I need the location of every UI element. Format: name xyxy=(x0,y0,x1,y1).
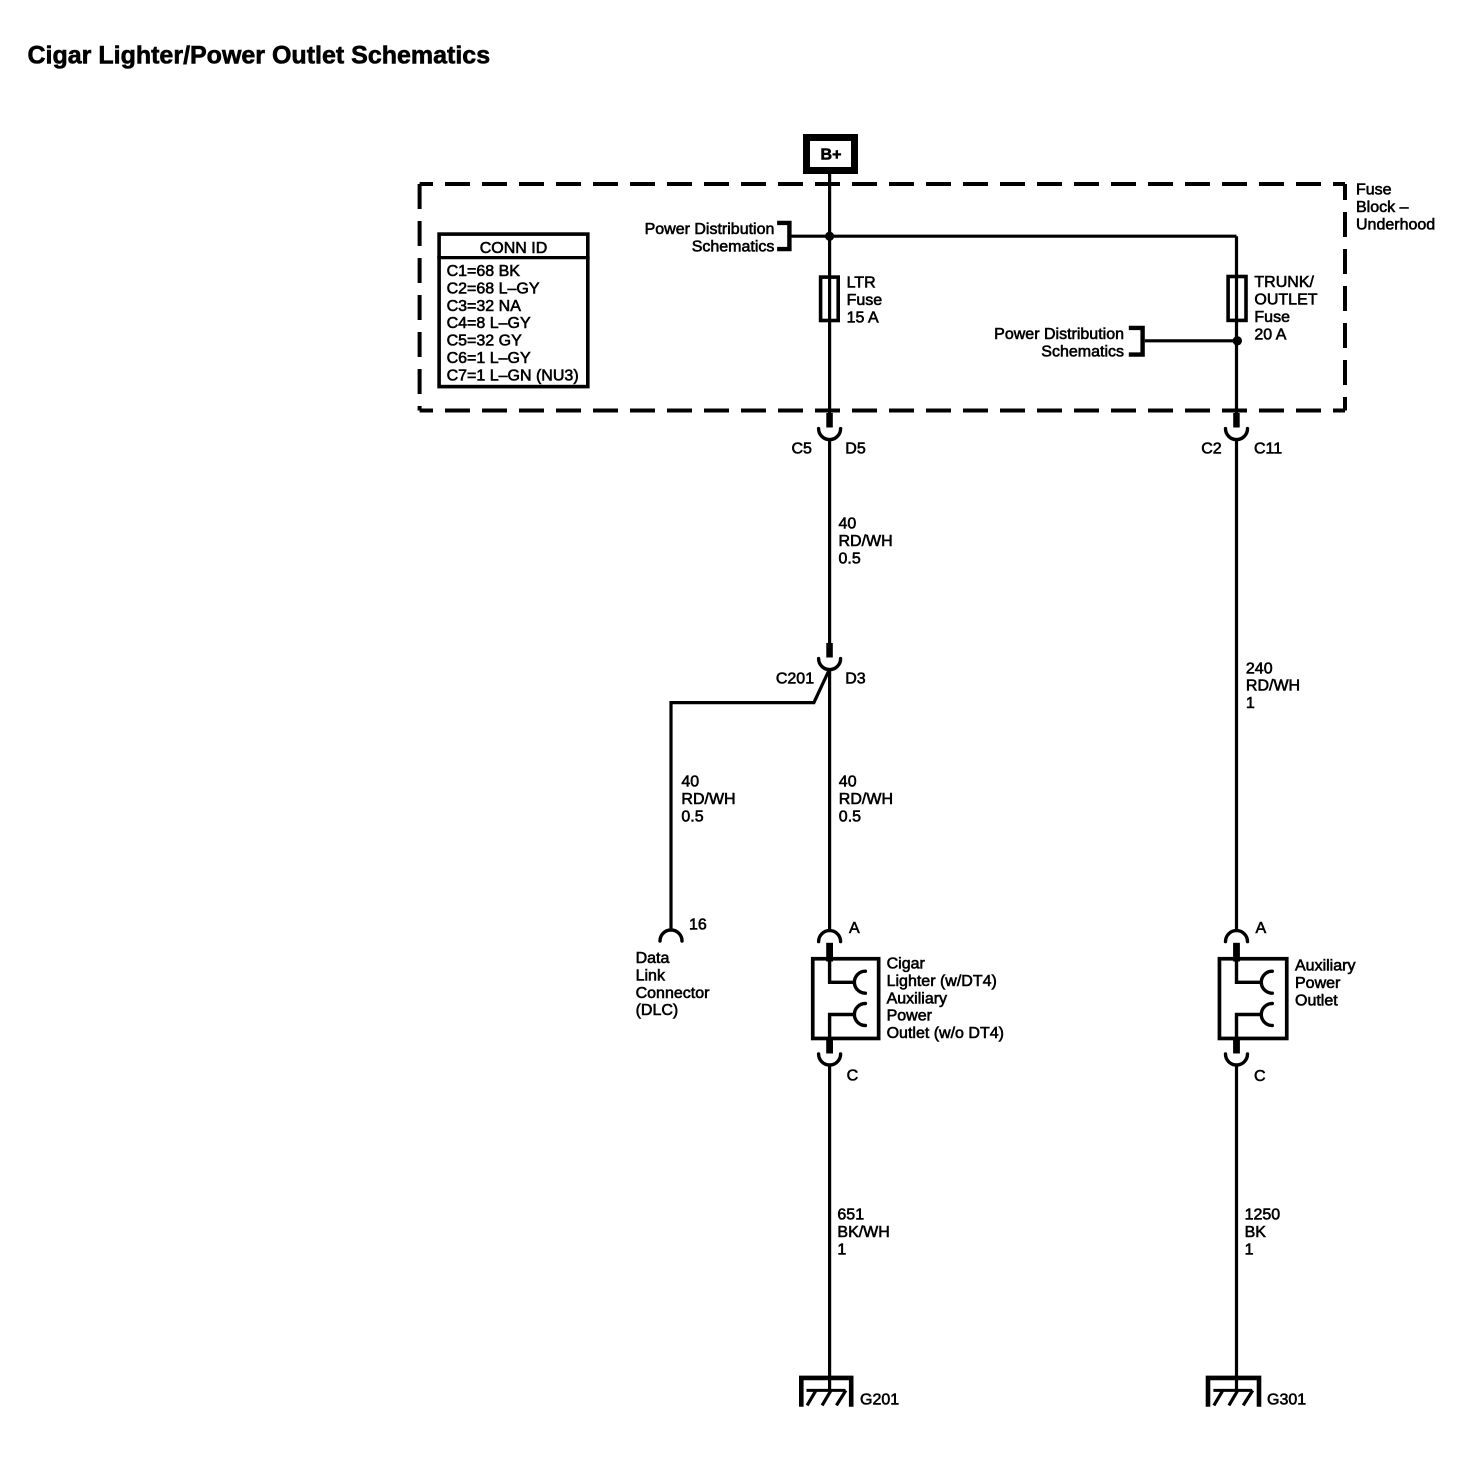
svg-text:C6=1 L–GY: C6=1 L–GY xyxy=(447,350,531,367)
svg-text:A: A xyxy=(1256,920,1267,937)
connector C5/D5 xyxy=(791,413,865,458)
junction node at TRUNK fuse output xyxy=(1233,336,1242,345)
wire cigar lighter pin C to ground G201 xyxy=(828,1066,831,1391)
fuse block label xyxy=(1356,182,1435,234)
svg-text:16: 16 xyxy=(689,917,707,934)
svg-text:G201: G201 xyxy=(860,1392,899,1409)
cigar lighter component box xyxy=(813,959,879,1039)
svg-text:Connector: Connector xyxy=(636,985,710,1002)
wire label 40 RD/WH 0.5 branch right xyxy=(839,774,893,826)
svg-text:C201: C201 xyxy=(776,671,814,688)
svg-text:RD/WH: RD/WH xyxy=(839,533,893,550)
svg-text:1: 1 xyxy=(1246,695,1255,712)
svg-text:C4=8 L–GY: C4=8 L–GY xyxy=(447,315,531,332)
svg-text:C: C xyxy=(1254,1068,1266,1085)
svg-text:Underhood: Underhood xyxy=(1356,217,1435,234)
wire label 240 RD/WH 1 xyxy=(1246,660,1300,712)
svg-text:Outlet (w/o DT4): Outlet (w/o DT4) xyxy=(887,1025,1004,1042)
svg-text:RD/WH: RD/WH xyxy=(681,791,735,808)
svg-text:40: 40 xyxy=(839,774,857,791)
svg-text:Power Distribution: Power Distribution xyxy=(994,326,1124,343)
ground G201 xyxy=(801,1378,899,1409)
svg-text:15 A: 15 A xyxy=(847,310,879,327)
svg-text:Fuse: Fuse xyxy=(1356,182,1392,199)
svg-text:20 A: 20 A xyxy=(1254,327,1286,344)
connector C2/C11 xyxy=(1201,413,1282,458)
DLC pin 16 connector xyxy=(660,917,707,942)
svg-text:C7=1 L–GN (NU3): C7=1 L–GN (NU3) xyxy=(447,367,579,384)
svg-text:1: 1 xyxy=(837,1241,846,1258)
svg-text:651: 651 xyxy=(837,1207,864,1224)
cigar lighter label xyxy=(887,956,1004,1043)
svg-text:Data: Data xyxy=(636,950,670,967)
svg-text:C5: C5 xyxy=(791,441,812,458)
svg-text:Lighter (w/DT4): Lighter (w/DT4) xyxy=(887,973,997,990)
svg-text:TRUNK/: TRUNK/ xyxy=(1254,274,1314,291)
svg-text:Auxiliary: Auxiliary xyxy=(1295,958,1355,975)
svg-text:D5: D5 xyxy=(845,441,866,458)
wire C201 to cigar lighter pin A xyxy=(828,670,831,931)
svg-text:Cigar Lighter/Power Outlet Sch: Cigar Lighter/Power Outlet Schematics xyxy=(28,42,491,70)
svg-text:Outlet: Outlet xyxy=(1295,992,1338,1009)
svg-text:C2: C2 xyxy=(1201,441,1222,458)
fuse LTR 15A xyxy=(821,275,883,327)
wire aux outlet pin C to ground G301 xyxy=(1235,1066,1238,1391)
svg-text:C: C xyxy=(847,1068,859,1085)
svg-text:Schematics: Schematics xyxy=(692,238,775,255)
svg-text:(DLC): (DLC) xyxy=(636,1002,679,1019)
svg-text:40: 40 xyxy=(839,516,857,533)
svg-text:0.5: 0.5 xyxy=(839,808,861,825)
svg-text:Power: Power xyxy=(887,1008,933,1025)
bracket 1 xyxy=(777,223,789,249)
svg-text:BK: BK xyxy=(1245,1224,1267,1241)
wire main horizontal feed xyxy=(830,235,1237,238)
svg-text:Cigar: Cigar xyxy=(887,956,926,973)
svg-text:G301: G301 xyxy=(1267,1392,1306,1409)
svg-text:C3=32 NA: C3=32 NA xyxy=(447,298,522,315)
DLC label xyxy=(636,950,710,1019)
auxiliary power outlet label xyxy=(1295,958,1355,1010)
svg-text:Power Distribution: Power Distribution xyxy=(645,221,775,238)
B+ battery feed box xyxy=(807,138,855,171)
svg-text:LTR: LTR xyxy=(847,275,876,292)
svg-text:CONN ID: CONN ID xyxy=(480,240,548,257)
wire C11 to aux outlet pin A xyxy=(1235,440,1238,931)
svg-text:Schematics: Schematics xyxy=(1041,343,1124,360)
wire label 1250 BK 1 xyxy=(1245,1207,1281,1259)
svg-text:1: 1 xyxy=(1245,1241,1254,1258)
svg-text:BK/WH: BK/WH xyxy=(837,1224,889,1241)
svg-text:D3: D3 xyxy=(845,671,866,688)
svg-text:1250: 1250 xyxy=(1245,1207,1281,1224)
auxiliary power outlet component box xyxy=(1219,959,1286,1039)
svg-text:C11: C11 xyxy=(1254,441,1282,458)
wire C5 to C201 xyxy=(828,440,831,643)
svg-text:OUTLET: OUTLET xyxy=(1254,292,1317,309)
svg-text:C2=68 L–GY: C2=68 L–GY xyxy=(447,280,540,297)
svg-text:C1=68 BK: C1=68 BK xyxy=(447,263,521,280)
svg-text:Fuse: Fuse xyxy=(1254,309,1290,326)
auxiliary power outlet pin A xyxy=(1226,920,1267,962)
CONN ID table xyxy=(437,234,589,387)
svg-text:B+: B+ xyxy=(821,147,842,164)
svg-text:0.5: 0.5 xyxy=(681,808,703,825)
cigar lighter pin A xyxy=(819,920,860,962)
fuse TRUNK/OUTLET 20A xyxy=(1228,274,1318,344)
connector C201/D3 xyxy=(776,643,866,688)
wire label 651 BK/WH 1 xyxy=(837,1207,889,1259)
auxiliary power outlet pin C xyxy=(1226,1039,1266,1085)
svg-text:40: 40 xyxy=(681,774,699,791)
svg-text:Link: Link xyxy=(636,967,666,984)
ground G301 xyxy=(1208,1378,1306,1409)
wire bracket1 to junction xyxy=(792,235,830,238)
power distribution schematics label 1 xyxy=(645,221,775,256)
svg-text:A: A xyxy=(849,920,860,937)
svg-text:RD/WH: RD/WH xyxy=(839,791,893,808)
wire label 40 RD/WH 0.5 branch left xyxy=(681,774,735,826)
svg-text:Block –: Block – xyxy=(1356,199,1409,216)
svg-text:240: 240 xyxy=(1246,660,1273,677)
junction node at B+ feed xyxy=(825,232,834,241)
svg-text:C5=32 GY: C5=32 GY xyxy=(447,333,522,350)
wire B+ down through LTR fuse to connector C5 xyxy=(828,174,831,413)
wire label 40 RD/WH 0.5 upper xyxy=(839,516,893,568)
svg-text:Fuse: Fuse xyxy=(847,292,883,309)
bracket 2 xyxy=(1129,328,1143,355)
svg-text:RD/WH: RD/WH xyxy=(1246,678,1300,695)
svg-text:Auxiliary: Auxiliary xyxy=(887,990,947,1007)
wire right vertical down through TRUNK fuse to connector C2 xyxy=(1235,236,1238,413)
svg-text:0.5: 0.5 xyxy=(839,550,861,567)
power distribution schematics label 2 xyxy=(994,326,1124,361)
wire branch C201 to DLC xyxy=(671,669,830,930)
wire bracket2 to junction xyxy=(1145,339,1238,342)
svg-text:Power: Power xyxy=(1295,975,1341,992)
cigar lighter pin C xyxy=(819,1039,859,1085)
fuse block underhood dashed box xyxy=(420,184,1345,411)
